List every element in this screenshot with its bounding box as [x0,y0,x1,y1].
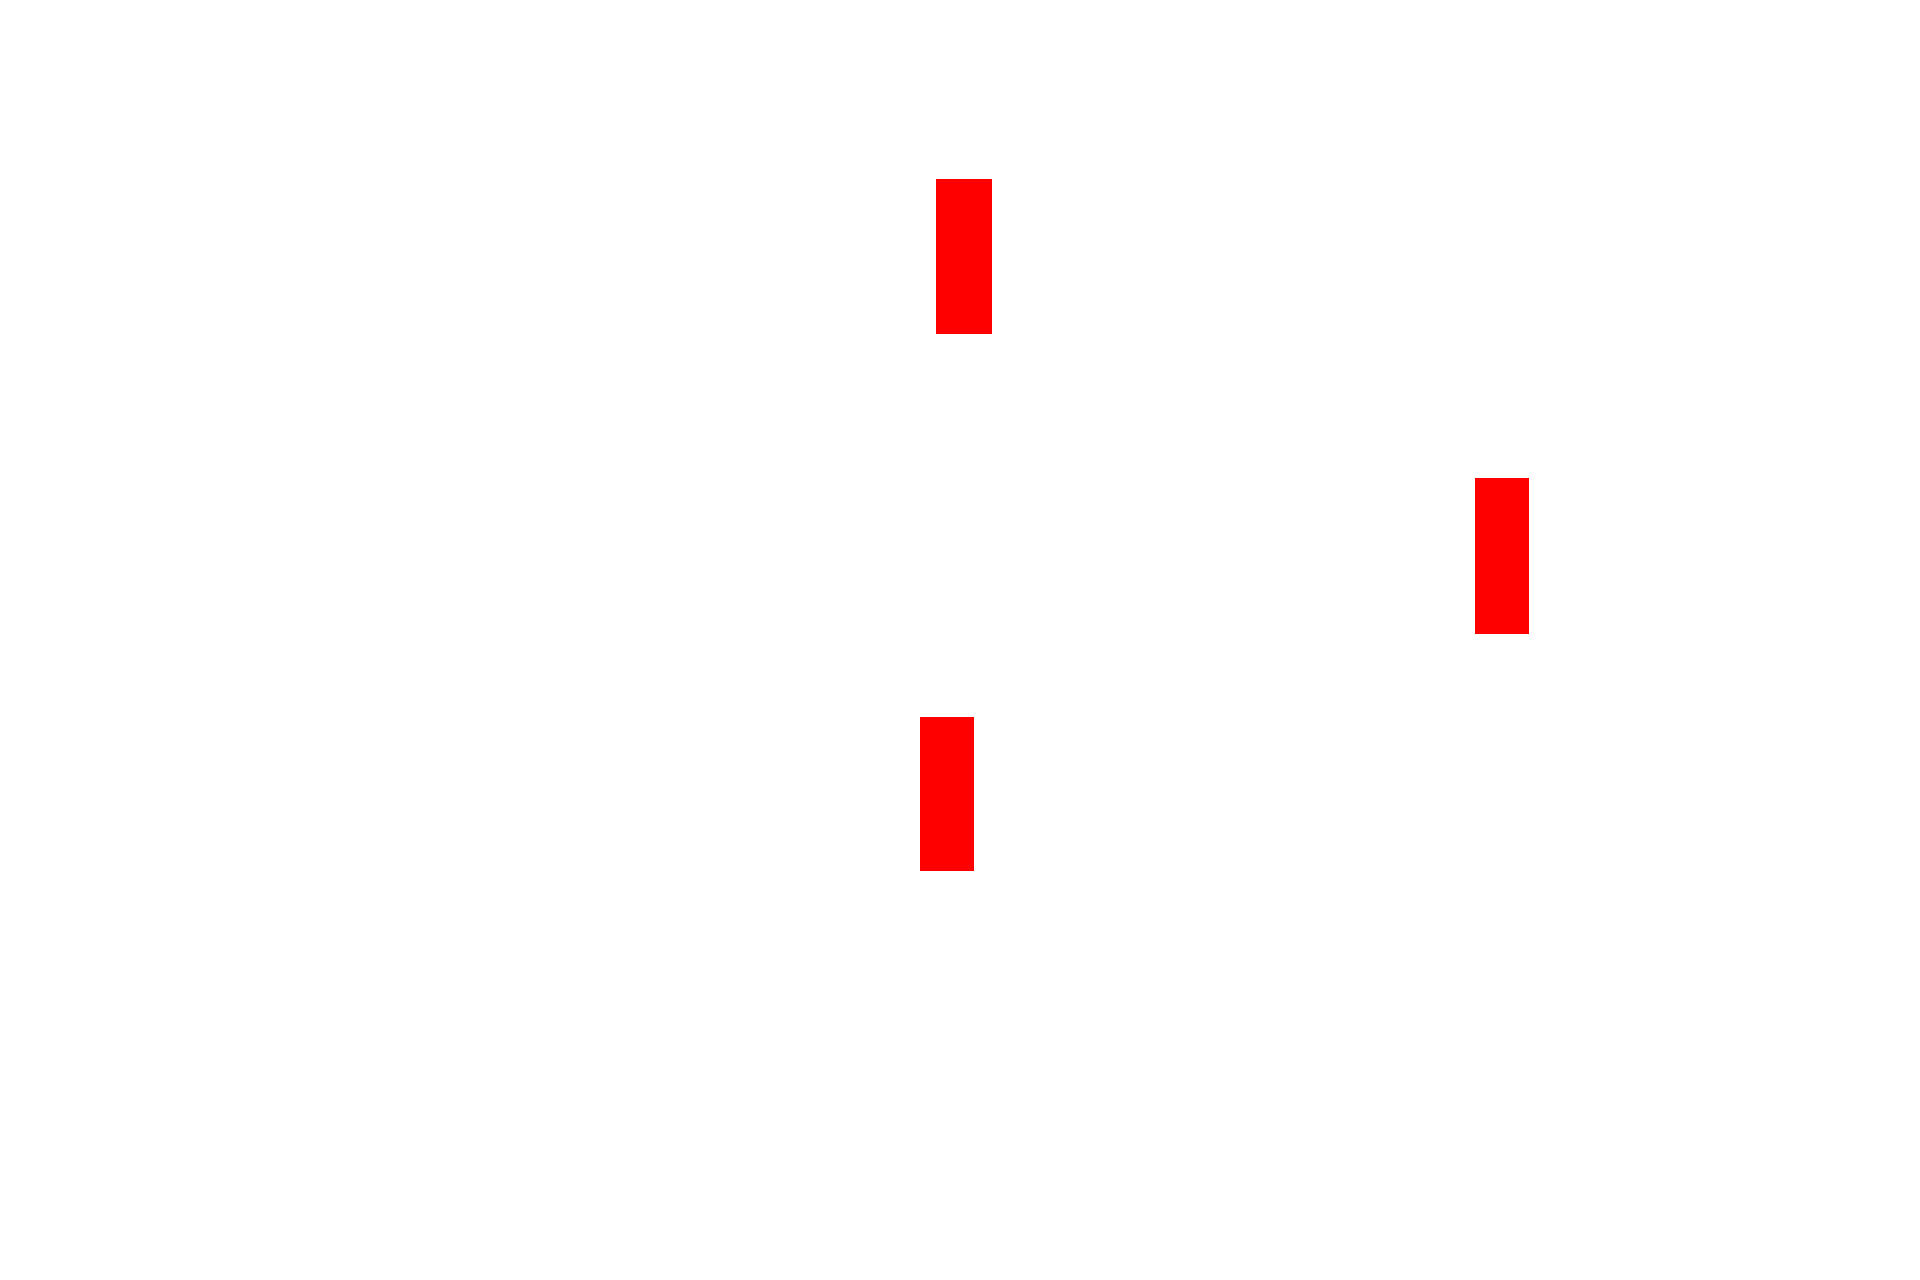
red candle bar 1 (top) [936,179,992,334]
red candle bar 2 (right) [1475,478,1529,634]
red candle bar 3 (bottom-left) [920,717,974,871]
